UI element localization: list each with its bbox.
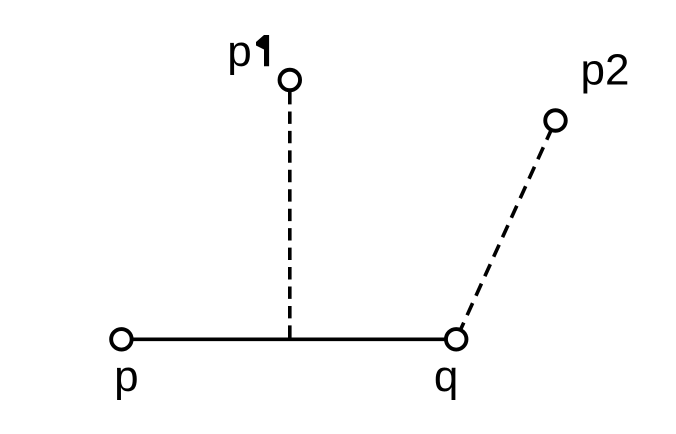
svg-text:p2: p2 — [581, 46, 630, 95]
node p2 — [545, 110, 566, 131]
wire: dashed vertical from p1 down to segment — [288, 80, 292, 339]
svg-text:p: p — [227, 27, 251, 76]
wire: dashed diagonal from p2 down to q — [456, 121, 555, 340]
svg-text:p: p — [114, 352, 138, 401]
svg-text:q: q — [434, 352, 458, 401]
node p — [111, 329, 131, 350]
node q — [446, 329, 467, 350]
node p1 — [280, 70, 301, 91]
wire: solid segment p-q — [121, 337, 456, 341]
